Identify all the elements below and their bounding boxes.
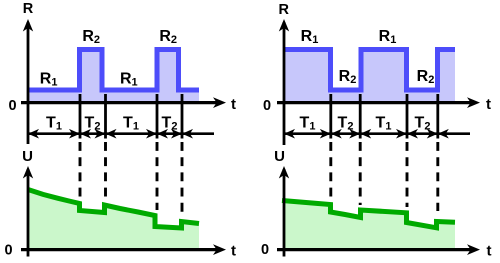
svg-text:T2: T2	[415, 115, 431, 133]
svg-text:T2: T2	[162, 115, 178, 133]
svg-text:R: R	[279, 2, 290, 18]
svg-text:0: 0	[5, 243, 13, 259]
svg-text:U: U	[274, 148, 285, 165]
svg-text:T1: T1	[376, 115, 392, 133]
svg-text:U: U	[22, 148, 33, 165]
svg-text:T1: T1	[46, 115, 62, 133]
svg-text:R1: R1	[120, 71, 138, 89]
svg-text:R1: R1	[301, 28, 319, 46]
svg-text:0: 0	[261, 242, 269, 258]
svg-text:R2: R2	[82, 28, 100, 46]
svg-text:T1: T1	[300, 115, 316, 133]
svg-text:R2: R2	[159, 28, 177, 46]
svg-text:0: 0	[8, 98, 16, 114]
svg-text:T2: T2	[338, 115, 354, 133]
svg-text:R2: R2	[417, 68, 435, 86]
svg-text:t: t	[487, 243, 492, 260]
svg-text:t: t	[231, 243, 236, 260]
svg-text:t: t	[486, 96, 491, 113]
svg-text:T1: T1	[123, 115, 139, 133]
svg-text:R2: R2	[339, 68, 357, 86]
svg-text:t: t	[231, 96, 236, 113]
svg-text:R1: R1	[379, 28, 397, 46]
svg-text:0: 0	[263, 98, 271, 114]
svg-text:T2: T2	[85, 115, 101, 133]
svg-text:R1: R1	[40, 71, 58, 89]
svg-text:R: R	[23, 1, 34, 17]
